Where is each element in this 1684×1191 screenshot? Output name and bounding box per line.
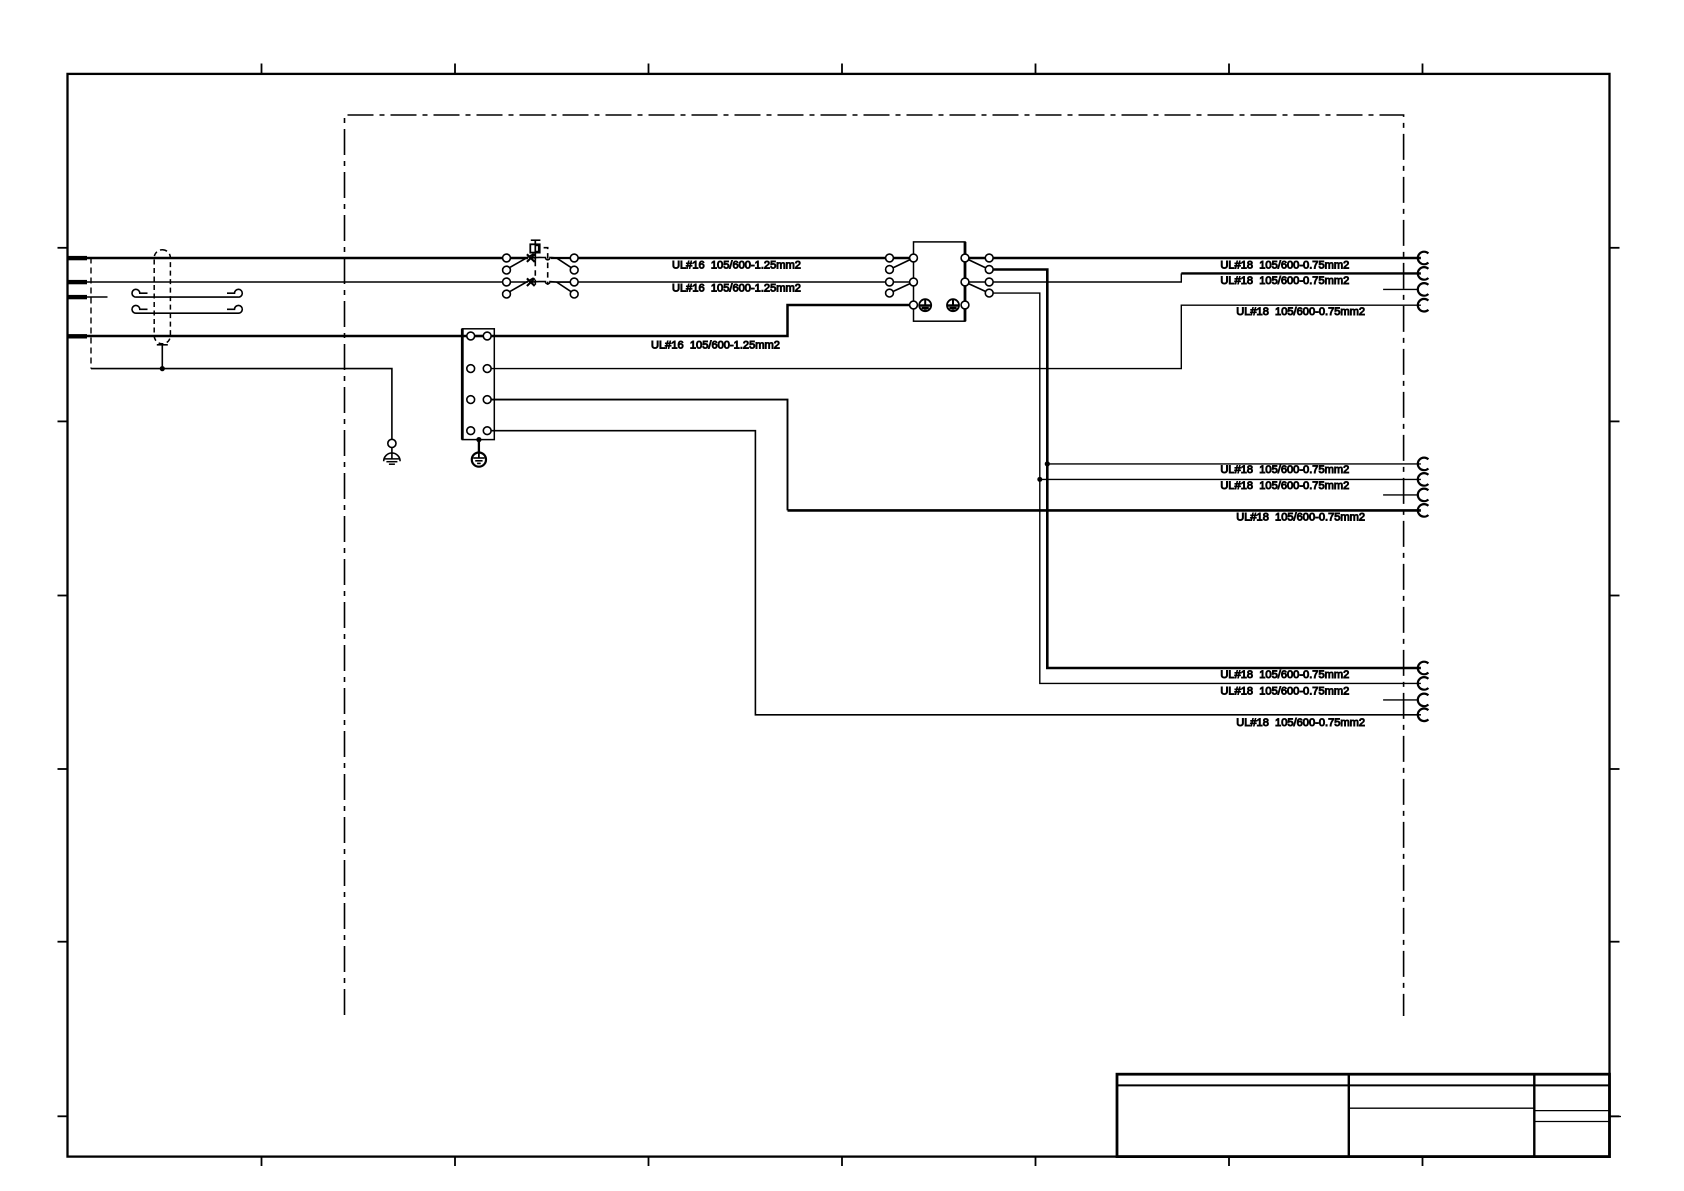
filter internal earth symbol 1 <box>919 299 931 311</box>
title block <box>1117 1074 1621 1156</box>
wire bus2 branch to CN2 pin2 <box>1040 478 1421 480</box>
wire bus1 branch to CN2 pin1 <box>1047 463 1421 465</box>
label UL#16 wire L <box>672 259 801 271</box>
connector CN3 pins <box>1418 662 1429 721</box>
connector CN1 pins <box>1418 252 1429 312</box>
label UL#18 CN2 wire2 <box>1220 480 1349 492</box>
mechanical link dashed 1 <box>534 261 536 285</box>
power inlet dashed boundary <box>90 258 92 369</box>
connector CN2 pins <box>1418 458 1429 517</box>
filter body <box>914 242 966 321</box>
junction TB1 to earth <box>476 437 481 442</box>
junction core tail to earth wire <box>160 366 165 371</box>
wire filter tap to vertical bus 1 <box>993 270 1421 669</box>
label UL#16 earth wire <box>651 339 780 351</box>
label UL#18 CN1 wire4 <box>1236 306 1365 318</box>
label UL#18 CN3 wire2 <box>1220 685 1349 697</box>
power inlet terminal stub N <box>68 280 87 284</box>
fold tick marks top edge <box>262 64 1423 75</box>
wire L switch to filter <box>578 257 889 260</box>
wire stub unused pin <box>87 296 108 298</box>
label UL#18 CN3 wire1 <box>1220 669 1349 681</box>
breaker actuator T-bar <box>531 239 541 241</box>
noise filter FL1 <box>886 242 994 321</box>
wire filter tap to vertical bus 2 <box>993 293 1421 683</box>
breaker body <box>530 244 539 252</box>
svg-text:UL#18 105/600-0.75mm2: UL#18 105/600-0.75mm2 <box>1236 512 1365 524</box>
wire stub CN1 pin3 <box>1383 288 1418 290</box>
switch SW1 <box>503 240 578 298</box>
fold tick marks right edge <box>1610 248 1620 1117</box>
wire L input <box>87 257 503 260</box>
junction bus2 to CN2 pin2 <box>1037 477 1042 482</box>
label UL#18 CN2 wire1 <box>1220 464 1349 476</box>
label UL#18 CN1 wire1 <box>1220 260 1349 272</box>
filter internal earth symbol 2 <box>947 299 959 311</box>
wire TB1 row3 to CN2 pin4 <box>491 400 1421 511</box>
power inlet terminal stub L <box>68 256 87 260</box>
svg-text:UL#18 105/600-0.75mm2: UL#18 105/600-0.75mm2 <box>1220 480 1349 492</box>
filter link wires left <box>890 257 914 260</box>
wire N input <box>87 281 503 283</box>
svg-text:UL#18 105/600-0.75mm2: UL#18 105/600-0.75mm2 <box>1220 685 1349 697</box>
switch terminal circles left <box>503 254 511 298</box>
filter link wires right <box>965 257 989 260</box>
switch terminal circles right <box>570 254 578 298</box>
wire TB1 row2 to CN1 pin4 <box>491 305 1421 368</box>
chassis ground G1 <box>384 439 400 464</box>
label UL#18 CN1 wire2 <box>1220 275 1349 287</box>
svg-text:UL#16 105/600-1.25mm2: UL#16 105/600-1.25mm2 <box>672 259 801 271</box>
wire filter to CN1 pin1 <box>993 257 1421 260</box>
power inlet terminal stub E <box>68 334 87 338</box>
fold tick marks bottom edge <box>262 1157 1423 1166</box>
svg-text:UL#18 105/600-0.75mm2: UL#18 105/600-0.75mm2 <box>1220 464 1349 476</box>
ferrite core (dashed capsule) <box>154 250 170 344</box>
power inlet terminal stub unused <box>68 295 87 299</box>
svg-text:UL#18 105/600-0.75mm2: UL#18 105/600-0.75mm2 <box>1220 669 1349 681</box>
svg-text:UL#18 105/600-0.75mm2: UL#18 105/600-0.75mm2 <box>1236 306 1365 318</box>
wire stub CN3 pin3 <box>1383 699 1418 701</box>
junction bus1 to CN2 pin1 <box>1045 461 1050 466</box>
wire E input <box>87 335 467 338</box>
wire N switch to filter <box>578 281 889 283</box>
svg-text:UL#16 105/600-1.25mm2: UL#16 105/600-1.25mm2 <box>672 283 801 295</box>
fold tick marks left edge <box>58 248 68 1117</box>
wire TB1 row4 to CN3 pin4 <box>491 431 1421 715</box>
terminal block TB1 <box>462 329 494 440</box>
filter pin circles <box>886 254 994 309</box>
label UL#18 CN3 wire4 <box>1236 717 1365 729</box>
svg-text:UL#16 105/600-1.25mm2: UL#16 105/600-1.25mm2 <box>651 339 780 351</box>
protective earth ground G2 <box>472 440 486 467</box>
earth wire <box>91 369 392 440</box>
choke winding lower <box>132 305 242 313</box>
pole 1 contact <box>508 254 571 268</box>
ferrite core tail <box>157 345 168 369</box>
wire TB1 row1 to filter bottom pin <box>491 305 909 336</box>
svg-text:UL#18 105/600-0.75mm2: UL#18 105/600-0.75mm2 <box>1220 275 1349 287</box>
mechanical link dashed 2 <box>544 248 548 285</box>
label UL#18 CN2 wire4 <box>1236 512 1365 524</box>
pole 2 contact <box>508 278 571 292</box>
wire filter to CN1 pin2 with jog <box>993 273 1421 282</box>
svg-text:UL#18 105/600-0.75mm2: UL#18 105/600-0.75mm2 <box>1236 717 1365 729</box>
svg-text:UL#18 105/600-0.75mm2: UL#18 105/600-0.75mm2 <box>1220 260 1349 272</box>
chassis boundary dash-dot enclosure <box>345 115 1404 1016</box>
label UL#16 wire N <box>672 283 801 295</box>
wire stub CN2 pin3 <box>1383 494 1418 496</box>
choke winding upper <box>132 289 242 297</box>
